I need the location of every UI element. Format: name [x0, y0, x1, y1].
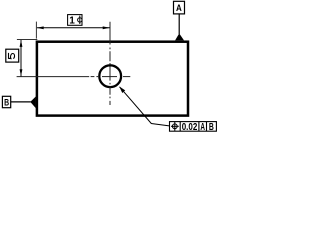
extension line left from top edge for dim 5 — [17, 39, 37, 41]
datum B stem — [11, 101, 31, 103]
svg-text:A: A — [176, 3, 182, 14]
phi symbol in box — [78, 16, 82, 24]
datum A stem — [178, 14, 180, 34]
datum A box — [174, 1, 185, 14]
datum B box — [2, 96, 10, 107]
dimension line 5 vertical — [20, 40, 22, 76]
datum A triangle — [175, 33, 184, 40]
leader arrowhead at hole — [119, 86, 125, 93]
horizontal centerline of hole — [17, 76, 131, 78]
arrowhead left of dim 10 — [37, 26, 44, 29]
basic dimension box 1-phi — [68, 15, 82, 26]
arrowhead right of dim 10 — [103, 26, 110, 29]
svg-text:0.02: 0.02 — [182, 121, 198, 133]
svg-text:B: B — [209, 122, 214, 133]
basic dimension box 5 — [6, 49, 19, 62]
FCF divider 3 — [206, 122, 208, 132]
feature control frame outline — [170, 122, 217, 132]
FCF divider 2 — [198, 122, 200, 132]
dimension line 10 — [37, 27, 110, 29]
vertical centerline of hole — [109, 22, 111, 105]
hole circle — [99, 65, 121, 87]
arrowhead bottom of dim 5 — [20, 69, 23, 76]
part outline rectangle — [37, 42, 188, 116]
svg-text:A: A — [200, 122, 205, 133]
leader line from hole to FCF — [120, 87, 170, 126]
svg-text:B: B — [4, 98, 9, 109]
datum B triangle — [30, 96, 36, 108]
svg-text:1: 1 — [69, 16, 75, 27]
extension line above left edge for dim 10 — [35, 22, 37, 39]
digit 5 rotated 90ccw drawn as path — [8, 53, 14, 59]
position symbol in FCF — [171, 122, 179, 131]
arrowhead top of dim 5 — [20, 40, 23, 47]
FCF divider 1 — [179, 122, 181, 132]
